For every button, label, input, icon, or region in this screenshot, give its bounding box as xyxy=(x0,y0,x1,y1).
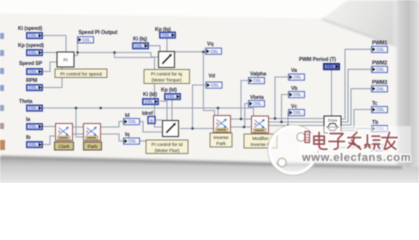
wire Vb branch up xyxy=(282,95,289,123)
svg-text:www.elecfans.com: www.elecfans.com xyxy=(301,152,411,164)
wire speed output bus to PI Iq xyxy=(78,53,159,58)
Modifier Inverse C block xyxy=(252,116,269,133)
svg-text:Speed SP: Speed SP xyxy=(19,61,43,67)
svg-text:Kp (speed): Kp (speed) xyxy=(18,43,44,49)
wire Vq down to Inverse Park xyxy=(203,52,214,115)
node Va branch xyxy=(274,117,276,119)
svg-text:Valpha: Valpha xyxy=(250,72,266,78)
terminal Id xyxy=(124,119,140,125)
watermark chinese text 电子发烧友 xyxy=(314,132,397,149)
wire Vc branch up xyxy=(287,113,289,126)
wire SVPWM to Tb xyxy=(341,129,371,131)
terminal Ki (speed) xyxy=(27,33,42,39)
node theta mid xyxy=(100,107,102,109)
wire PI Iq output to Vq xyxy=(174,51,205,53)
wire Ki(Iq) to PI Iq xyxy=(148,46,160,51)
label box Inverse Park xyxy=(210,133,232,147)
wire Ki(Id) to PI Id xyxy=(160,101,167,120)
wire Kp(speed) to PI speed xyxy=(43,52,57,54)
terminal Vb xyxy=(289,92,305,98)
terminal Ta xyxy=(372,145,388,151)
watermark logo circle xyxy=(270,127,317,174)
svg-text:Theta: Theta xyxy=(19,99,33,105)
wire Va branch up xyxy=(275,77,288,119)
wire Kp(Id) to PI Id xyxy=(171,100,173,121)
wire Id to PI Id xyxy=(140,122,162,133)
svg-text:PWM3: PWM3 xyxy=(372,80,387,86)
wire SVPWM to Ta xyxy=(338,133,371,148)
label box Modifier Inverse C xyxy=(244,134,277,148)
terminal Ib xyxy=(27,142,42,148)
svg-text:Ki (Id): Ki (Id) xyxy=(143,92,157,98)
terminal Tb xyxy=(372,126,388,132)
svg-text:PWM Period (T): PWM Period (T) xyxy=(299,57,336,63)
constant Idref 0 xyxy=(148,117,155,124)
svg-text:Clark: Clark xyxy=(58,144,70,150)
wire Idref to PI Id xyxy=(155,119,162,121)
svg-text:Ia: Ia xyxy=(26,117,30,123)
svg-text:PI control for speed: PI control for speed xyxy=(60,71,102,77)
wire Ki(speed) to PI speed xyxy=(43,36,66,53)
terminal Vq xyxy=(206,48,222,54)
wire PI Id output to Vd xyxy=(180,85,206,129)
wire Vd to Inverse Park xyxy=(193,128,214,130)
svg-text:Modifier: Modifier xyxy=(252,136,269,141)
svg-text:Ki (speed): Ki (speed) xyxy=(18,26,42,32)
node Vd branch xyxy=(191,127,193,129)
node Valpha branch xyxy=(240,118,242,120)
SVPWM block xyxy=(324,116,341,133)
wire Inverse Park Vbeta out xyxy=(228,104,248,128)
junction dots xyxy=(75,51,289,130)
terminal PWM Period (T) xyxy=(324,64,339,70)
wires layer xyxy=(43,36,371,148)
node theta invpark xyxy=(217,107,219,109)
wire Inverse Park Valpha out xyxy=(228,81,248,120)
terminal Speed SP xyxy=(27,69,42,75)
wire theta bus xyxy=(43,108,254,116)
terminal Iq xyxy=(124,138,140,144)
node Vbeta branch xyxy=(243,126,245,128)
svg-text:Vq: Vq xyxy=(207,41,213,47)
terminal Tc xyxy=(372,107,388,113)
svg-text:DBL: DBL xyxy=(326,64,335,69)
label box PI control for Iq xyxy=(144,70,190,84)
Inverse Park block xyxy=(214,116,231,133)
wire Ia to Clark xyxy=(43,126,55,128)
terminal Vd xyxy=(206,82,222,88)
wire Speed SP to PI speed xyxy=(43,62,57,72)
top-right gray corner xyxy=(0,0,1,1)
terminal Kp (speed) xyxy=(27,50,42,56)
top strip above page xyxy=(0,0,419,17)
wire Park to Iq xyxy=(101,134,123,141)
terminal Valpha xyxy=(249,78,265,84)
wire Valpha to Modifier xyxy=(241,118,251,120)
svg-text:RPM: RPM xyxy=(26,78,37,84)
wire Kp(Iq) to PI Iq xyxy=(166,39,168,52)
terminal Ki (Id) xyxy=(143,99,158,105)
svg-text:PWM1: PWM1 xyxy=(372,41,387,47)
watermark xyxy=(268,125,411,175)
node Vq branch xyxy=(202,51,204,53)
wire Vbeta to Modifier xyxy=(244,126,251,128)
svg-text:Speed PI Output: Speed PI Output xyxy=(79,30,118,36)
page background xyxy=(0,0,419,183)
label box Park xyxy=(84,142,102,150)
svg-text:PI: PI xyxy=(63,58,67,63)
terminal Ki (Iq) xyxy=(133,43,148,49)
wire Modifier Vc out bus xyxy=(268,125,324,127)
wire PI speed output to Speed PI Output terminal xyxy=(74,42,78,56)
terminal PWM3 xyxy=(372,86,388,92)
wire SVPWM to Tc xyxy=(341,110,371,129)
svg-text:PWM2: PWM2 xyxy=(372,61,387,67)
PI speed block xyxy=(57,52,74,67)
terminal Theta xyxy=(27,105,42,111)
wire SVPWM to PWM2 xyxy=(341,69,371,122)
wire Modifier Vb out bus xyxy=(268,121,324,123)
Clark block xyxy=(56,124,73,141)
wire SVPWM to PWM3 xyxy=(341,89,371,125)
right gray band xyxy=(392,0,419,183)
scanned page xyxy=(0,14,401,167)
label box Clark xyxy=(55,142,74,150)
PI Id block (pen icon) xyxy=(163,121,179,137)
wire RPM to PI speed xyxy=(43,67,62,88)
wire Clark to Park upper xyxy=(73,126,83,128)
svg-text:Vd: Vd xyxy=(209,74,215,80)
wire theta drop to Park xyxy=(76,108,83,137)
terminal Ia xyxy=(27,124,42,130)
node speed output branch xyxy=(76,51,78,53)
wire PWM Period T down to SVPWM xyxy=(331,70,333,117)
svg-text:(Motor Torque): (Motor Torque) xyxy=(151,77,182,82)
svg-text:Ib: Ib xyxy=(26,135,30,141)
node branch to Id chain xyxy=(113,51,115,53)
wire Park to Id xyxy=(101,122,123,128)
watermark red seal mark xyxy=(305,132,310,143)
svg-text:Ki (Iq): Ki (Iq) xyxy=(133,36,147,42)
wire Clark to Park lower xyxy=(73,133,83,135)
terminal Va xyxy=(289,74,305,80)
wire SVPWM to PWM1 xyxy=(341,49,371,119)
terminal Vbeta xyxy=(249,101,265,107)
node Vb branch xyxy=(280,121,282,123)
watermark white plate xyxy=(299,126,411,155)
terminal PWM2 xyxy=(372,66,388,72)
terminal Vc xyxy=(289,110,305,116)
terminal Speed PI Output xyxy=(78,37,94,43)
node Vc branch xyxy=(287,124,289,126)
terminal RPM xyxy=(27,85,42,91)
terminal Kp (Iq) xyxy=(160,32,175,38)
svg-text:PI control for Iq: PI control for Iq xyxy=(151,71,183,76)
svg-text:(Motor Flux): (Motor Flux) xyxy=(155,148,180,153)
left edge cropped fragments xyxy=(0,33,5,150)
terminal PWM1 xyxy=(372,46,388,52)
wire Iq feedback to PI Iq xyxy=(140,140,146,142)
node theta-park xyxy=(75,107,77,109)
svg-text:Inverse: Inverse xyxy=(213,135,229,140)
svg-text:Va: Va xyxy=(291,68,297,74)
terminal Kp (Id) xyxy=(165,94,180,100)
svg-text:Kp (Id): Kp (Id) xyxy=(161,88,177,94)
wire Modifier Va out bus xyxy=(268,118,324,120)
Park block xyxy=(84,124,101,141)
label box PI control for speed xyxy=(55,69,107,78)
PI Iq block (pen icon) xyxy=(159,52,175,68)
wire branch down to PI Id chain xyxy=(115,53,163,128)
label box PI control for Id xyxy=(146,140,188,154)
wire Ib to Clark xyxy=(43,136,55,145)
bottom gray band xyxy=(0,157,419,183)
svg-text:Iq: Iq xyxy=(125,132,129,138)
svg-text:PI control for Id: PI control for Id xyxy=(151,142,183,147)
svg-text:Park: Park xyxy=(88,144,98,150)
svg-text:SVpw: SVpw xyxy=(328,119,338,123)
svg-text:Park: Park xyxy=(216,141,226,146)
